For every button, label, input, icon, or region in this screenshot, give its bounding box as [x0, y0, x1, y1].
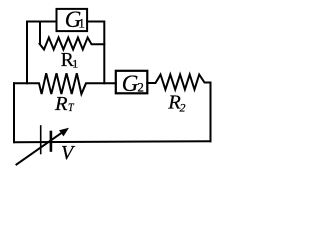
svg-text:1: 1 [72, 57, 78, 71]
svg-text:1: 1 [78, 16, 85, 31]
svg-text:G: G [122, 71, 139, 96]
svg-text:2: 2 [137, 80, 144, 95]
svg-text:R: R [54, 93, 68, 115]
svg-text:2: 2 [180, 101, 186, 115]
